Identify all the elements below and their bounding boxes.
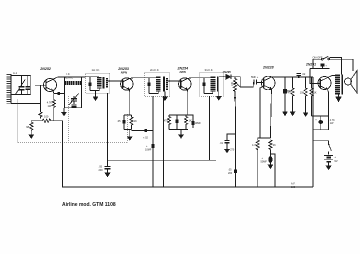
ground (Q3 emitter) bbox=[180, 132, 182, 135]
coil T2 core lines bbox=[102, 77, 104, 89]
ground (Q2 emitter) bbox=[129, 134, 131, 137]
ground (T2) bbox=[93, 97, 97, 100]
svg-text:+: + bbox=[334, 156, 336, 159]
svg-text:4.7K: 4.7K bbox=[252, 144, 257, 147]
wire switch to speaker line 2 bbox=[330, 59, 353, 71]
wire osc top run bbox=[65, 76, 86, 78]
transistor Q4 2N228 bbox=[261, 76, 275, 90]
svg-text:100: 100 bbox=[291, 186, 296, 189]
svg-text:3rd I.F.: 3rd I.F. bbox=[205, 68, 214, 72]
resistor R5 1K zigzag bbox=[130, 115, 133, 130]
output transformer T5 winding bbox=[335, 75, 340, 95]
wire Q3 cluster top bbox=[169, 114, 188, 116]
svg-text:10MF: 10MF bbox=[195, 122, 202, 125]
resistor R9 4.7K zigzag bbox=[256, 138, 259, 153]
diode D1 1N295 bbox=[226, 74, 230, 79]
wire Q3 cluster bottom bbox=[169, 128, 188, 130]
variable capacitor C1B leads bbox=[73, 96, 75, 99]
oscillator coil T1 bbox=[65, 81, 82, 85]
svg-text:A-1: A-1 bbox=[13, 71, 18, 75]
battery B1 bbox=[324, 155, 333, 157]
wire T3 to ground bbox=[164, 92, 166, 98]
wire battery to ground bbox=[328, 162, 330, 166]
wire wiper to coupling cap bbox=[240, 82, 253, 87]
wiper junction dot bbox=[234, 97, 236, 99]
transistor Q3 2N254 bbox=[179, 78, 191, 90]
wire Q1 collector to osc coil bbox=[53, 77, 64, 79]
capacitor C (Q2 bypass) bbox=[123, 115, 125, 120]
svg-text:68: 68 bbox=[26, 125, 29, 129]
ground (50MF) bbox=[268, 165, 272, 168]
wire T4 secondary to diode bbox=[219, 76, 226, 78]
coil T2 secondary bbox=[106, 78, 108, 89]
ground (det bypass) bbox=[225, 150, 229, 153]
volume control R8 10K zigzag bbox=[233, 77, 236, 98]
svg-text:5MF +: 5MF + bbox=[251, 76, 259, 79]
wire T2 down to bus A bbox=[107, 93, 109, 160]
wire Q4 emitter down bbox=[270, 89, 271, 138]
svg-text:10K: 10K bbox=[300, 92, 305, 95]
transistor Q5 2N291 bbox=[318, 77, 331, 90]
wire osc coil left leg bbox=[65, 77, 82, 108]
wire B minus riser bbox=[312, 77, 314, 187]
resistor R3 4.7K 1W zigzag bbox=[52, 100, 55, 108]
wire cluster to C10 bbox=[132, 130, 153, 132]
trimmer capacitor plates bbox=[26, 86, 30, 88]
svg-text:9V: 9V bbox=[334, 159, 337, 163]
resistor R11 470 zigzag bbox=[291, 77, 294, 112]
wire Q3 collector to T4 bbox=[188, 77, 200, 80]
wire Q4 collector run bbox=[272, 76, 313, 78]
capacitor C (T2) bbox=[89, 77, 91, 83]
svg-text:Airline mod. GTM 1108: Airline mod. GTM 1108 bbox=[62, 202, 116, 208]
wire Q5 base left bbox=[310, 69, 320, 84]
wire T2 primary top bbox=[86, 76, 100, 78]
wire T4 down to bus A bbox=[209, 96, 211, 160]
wire cluster to ground bbox=[180, 129, 182, 132]
wire cap box right edge bbox=[30, 76, 32, 95]
ground (oscillator) bbox=[63, 110, 65, 113]
electrolytic C 10MF on line bbox=[152, 144, 155, 148]
wire cap to Q4 base bbox=[256, 82, 263, 84]
wire T2 secondary out to Q2 base bbox=[107, 80, 123, 82]
ground (antenna bias) bbox=[29, 135, 33, 138]
resistor R2 68 zigzag bbox=[30, 121, 33, 131]
trimmer capacitor leads bbox=[27, 76, 29, 87]
svg-text:270: 270 bbox=[230, 149, 235, 152]
switch S1 lever bbox=[329, 144, 332, 151]
svg-text:2N252: 2N252 bbox=[39, 67, 51, 71]
coil T2 winding bbox=[97, 77, 102, 89]
wire T3 bottom bbox=[149, 92, 158, 94]
capacitor stub 10MF near Q3 bbox=[188, 115, 193, 121]
coil T3 winding bbox=[156, 77, 161, 92]
variable capacitor C1A arrow bbox=[15, 80, 25, 96]
wire switch to speaker line 1 bbox=[330, 58, 342, 75]
wire Q2 collector to T3 bbox=[130, 77, 145, 80]
svg-text:1K: 1K bbox=[314, 92, 317, 95]
ground (5MF) bbox=[283, 112, 287, 116]
svg-text:.02: .02 bbox=[302, 73, 306, 76]
wire emitter branch to bus B bbox=[270, 154, 275, 187]
ground (bus A cap) bbox=[105, 173, 110, 177]
ground (battery) bbox=[326, 166, 331, 170]
svg-text:200: 200 bbox=[99, 169, 104, 172]
wire Q4 base bias down bbox=[260, 86, 264, 138]
wire emitter resistor to AVC node bbox=[53, 108, 55, 121]
svg-text:2nd I.F.: 2nd I.F. bbox=[150, 68, 159, 72]
svg-text:+.02: +.02 bbox=[143, 137, 149, 140]
svg-text:NPN: NPN bbox=[180, 70, 187, 74]
wire T3 secondary to Q3 base bbox=[167, 80, 181, 82]
resistor R12 10K zigzag bbox=[304, 77, 307, 113]
gang dashed box bbox=[17, 100, 127, 143]
svg-text:10MF: 10MF bbox=[145, 148, 152, 151]
bus A bypass capacitor bbox=[107, 160, 109, 166]
decoupling loop top wire bbox=[312, 115, 329, 117]
speaker SPK bbox=[345, 78, 352, 85]
svg-text:1W: 1W bbox=[48, 104, 52, 108]
wire T3 top bbox=[144, 77, 158, 79]
wire AVC line bbox=[31, 120, 42, 122]
wire bias pair top bbox=[258, 137, 271, 139]
resistor R1 4.7K (base) zigzag bbox=[39, 112, 42, 119]
ground (R11) bbox=[291, 112, 295, 116]
coil T3 core lines bbox=[162, 77, 164, 92]
resistor R6 zigzag bbox=[167, 115, 170, 129]
wire Q2 emitter cluster top bbox=[124, 114, 132, 116]
wire T3 down to bus B (left) bbox=[152, 96, 154, 187]
electrolytic C 5MF to ground bbox=[284, 77, 286, 89]
antenna loop coil L1 bbox=[6, 74, 10, 104]
capacitor C (T3) bbox=[148, 78, 150, 83]
wire antenna bottom loop bbox=[11, 94, 31, 96]
coil T3 secondary bbox=[166, 78, 168, 91]
resistor R7 zigzag bbox=[184, 115, 187, 129]
svg-text:100: 100 bbox=[44, 115, 49, 119]
svg-text:.05: .05 bbox=[117, 120, 121, 123]
padder capacitor plates bbox=[72, 104, 77, 106]
wire Q2 cluster bottom bbox=[124, 129, 132, 131]
wire R10 to electrolytic bbox=[269, 153, 271, 156]
wire volume bottom down bbox=[234, 98, 237, 187]
wire T5 bottom to ground bbox=[338, 95, 340, 98]
bus A wire bbox=[108, 159, 217, 161]
wire cap stub2 bbox=[322, 67, 324, 69]
capacitor C 5MF coupling bbox=[253, 79, 255, 84]
antenna coil core line bbox=[10, 74, 12, 104]
svg-text:NPN: NPN bbox=[121, 71, 128, 75]
ground (T5) bbox=[336, 97, 341, 102]
svg-text:1K: 1K bbox=[189, 120, 192, 123]
IF transformer T3 box (2nd IF) bbox=[144, 73, 169, 96]
wire coil bottom to bias resistor bbox=[11, 103, 40, 105]
junction dot bbox=[298, 76, 300, 78]
capacitor C .05 on volume line bbox=[234, 170, 237, 173]
wire antenna top bbox=[11, 75, 31, 77]
svg-text:1K: 1K bbox=[134, 120, 137, 123]
capacitor C .02 above run bbox=[297, 72, 302, 74]
svg-text:470: 470 bbox=[164, 120, 169, 123]
gang link dashed bbox=[67, 96, 69, 142]
wire osc box to ground bbox=[63, 108, 66, 110]
wire T3 down to bus B (right) bbox=[163, 96, 165, 187]
svg-text:4.7K: 4.7K bbox=[47, 100, 53, 104]
variable capacitor C1B plates bbox=[71, 98, 77, 100]
wire R2 to ground bbox=[30, 130, 32, 135]
capacitor C (T4) bbox=[203, 78, 205, 83]
svg-text:50MF: 50MF bbox=[261, 160, 268, 163]
capacitor C blob (Q3 bypass) bbox=[176, 115, 178, 120]
wire cluster to ground bbox=[129, 130, 131, 135]
electrolytic C in loop bbox=[320, 116, 322, 120]
wire T4 bottom bbox=[204, 92, 213, 94]
ground (R12) bbox=[304, 113, 308, 116]
wire Q3 emitter down bbox=[186, 90, 189, 115]
wire diode to volume bbox=[231, 77, 240, 87]
decoupling loop right+bottom wire bbox=[313, 116, 329, 130]
svg-text:2K: 2K bbox=[273, 144, 276, 147]
svg-text:1N295: 1N295 bbox=[223, 70, 232, 74]
svg-text:+: + bbox=[325, 65, 327, 68]
variable capacitor C1A leads bbox=[21, 76, 23, 87]
volume wiper arrow bbox=[236, 83, 240, 87]
IF transformer T2 box (1st IF) bbox=[86, 73, 110, 93]
wire Q1 emitter down bbox=[53, 91, 54, 100]
svg-text:200: 200 bbox=[228, 172, 233, 175]
electrolytic C 50MF bbox=[268, 156, 272, 163]
wire Q5 emitter down bbox=[327, 90, 328, 116]
wire Q2 emitter down bbox=[128, 90, 131, 115]
svg-text:2N291: 2N291 bbox=[305, 63, 316, 67]
wire R9 to bus B bbox=[257, 153, 259, 187]
svg-text:2N228: 2N228 bbox=[262, 66, 274, 70]
svg-text:I.F.: I.F. bbox=[67, 72, 71, 76]
wire T4 top bbox=[200, 77, 213, 79]
wire T2 bottom bbox=[90, 89, 99, 91]
wire Q5 base loop bbox=[310, 68, 330, 70]
wire T2 bottom to ground bbox=[95, 91, 97, 98]
capacitor C .02 blob bbox=[145, 129, 148, 132]
battery switch wire bbox=[313, 141, 329, 144]
resistor R13 1K zigzag bbox=[310, 77, 313, 116]
IF transformer T4 box (3rd IF) bbox=[200, 73, 224, 96]
coil T4 core lines bbox=[217, 77, 219, 92]
ground (T3) bbox=[163, 97, 167, 100]
resistor R4 100 horizontal zigzag bbox=[42, 119, 51, 122]
ground (T4) bbox=[217, 97, 221, 100]
svg-text:1W: 1W bbox=[330, 122, 334, 125]
transistor Q2 2N253 bbox=[121, 78, 133, 90]
variable capacitor C1B arrow bbox=[69, 94, 79, 106]
variable capacitor C1A plates bbox=[19, 86, 25, 88]
svg-text:.01: .01 bbox=[220, 142, 224, 145]
osc tap capacitor blob bbox=[54, 93, 65, 95]
resistor R10 2K zigzag bbox=[269, 140, 272, 153]
T5 core lines bbox=[340, 75, 342, 95]
wire T4 to ground bbox=[218, 92, 220, 97]
svg-text:10K: 10K bbox=[231, 81, 234, 86]
svg-text:1st I.F.: 1st I.F. bbox=[92, 68, 100, 72]
bus B wire bbox=[62, 121, 313, 187]
electrolytic C base feed bbox=[321, 64, 325, 67]
svg-text:470: 470 bbox=[288, 92, 293, 95]
wire switch left to Q5 feed bbox=[313, 59, 321, 68]
coil T4 winding bbox=[210, 77, 215, 92]
capacitor C2 det bypass bbox=[227, 134, 236, 141]
svg-text:+: + bbox=[315, 119, 317, 122]
transistor Q1 2N252 bbox=[44, 79, 57, 92]
wire Q1 base bbox=[35, 84, 46, 86]
wire Q5 collector to transformer bbox=[328, 76, 338, 78]
svg-text:455 KC: 455 KC bbox=[64, 75, 73, 79]
